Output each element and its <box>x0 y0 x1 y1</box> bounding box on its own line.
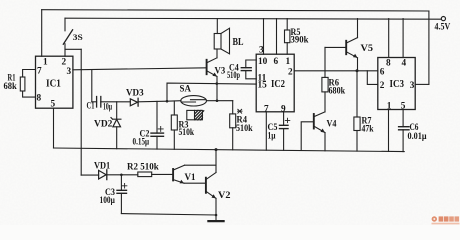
svg-text:15: 15 <box>258 81 268 91</box>
svg-text:2: 2 <box>62 58 67 68</box>
svg-text:2: 2 <box>288 67 293 77</box>
svg-text:4.5V: 4.5V <box>435 22 451 32</box>
svg-text:10: 10 <box>258 57 268 67</box>
svg-text:7: 7 <box>37 67 42 77</box>
svg-text:10μ: 10μ <box>103 103 112 113</box>
svg-text:1: 1 <box>43 58 48 68</box>
svg-text:R2 510k: R2 510k <box>127 163 159 173</box>
svg-text:5: 5 <box>51 100 56 110</box>
svg-text:8: 8 <box>37 94 42 104</box>
svg-text:IC2: IC2 <box>271 79 285 90</box>
svg-text:9: 9 <box>281 104 286 114</box>
svg-text:2: 2 <box>380 81 385 91</box>
svg-text:510k: 510k <box>179 128 195 138</box>
svg-text:100μ: 100μ <box>100 196 116 206</box>
svg-text:8: 8 <box>386 59 391 69</box>
svg-text:BL: BL <box>233 37 244 48</box>
svg-text:3S: 3S <box>73 32 83 42</box>
svg-text:6: 6 <box>380 67 385 77</box>
svg-text:SA: SA <box>180 85 192 95</box>
svg-text:6: 6 <box>274 57 279 67</box>
svg-text:V3: V3 <box>215 66 226 76</box>
svg-text:0.15μ: 0.15μ <box>133 137 150 147</box>
svg-text:V4: V4 <box>327 119 337 129</box>
svg-text:V2: V2 <box>218 191 231 201</box>
svg-text:680k: 680k <box>329 87 346 97</box>
svg-text:1: 1 <box>387 101 392 111</box>
svg-text:1: 1 <box>286 57 291 67</box>
svg-text:1μ: 1μ <box>268 131 277 141</box>
svg-text:VD3: VD3 <box>126 89 144 99</box>
svg-text:IC1: IC1 <box>46 79 61 90</box>
svg-text:3: 3 <box>259 45 264 55</box>
svg-text:IC3: IC3 <box>390 79 405 90</box>
svg-text:7: 7 <box>264 104 269 114</box>
svg-text:VD2: VD2 <box>94 120 113 130</box>
svg-text:390k: 390k <box>291 36 310 46</box>
svg-text:0.01μ: 0.01μ <box>408 132 428 142</box>
svg-text:510p: 510p <box>227 71 240 81</box>
svg-text:V1: V1 <box>185 173 196 183</box>
svg-text:C1: C1 <box>87 102 95 112</box>
svg-text:510k: 510k <box>236 124 253 134</box>
svg-text:3: 3 <box>67 67 72 77</box>
svg-text:47k: 47k <box>362 125 375 135</box>
svg-text:3: 3 <box>410 81 415 91</box>
svg-text:V5: V5 <box>361 44 374 54</box>
svg-text:VD1: VD1 <box>94 161 111 171</box>
svg-text:4: 4 <box>402 59 407 69</box>
svg-text:5: 5 <box>401 101 406 111</box>
svg-text:68k: 68k <box>4 82 18 92</box>
